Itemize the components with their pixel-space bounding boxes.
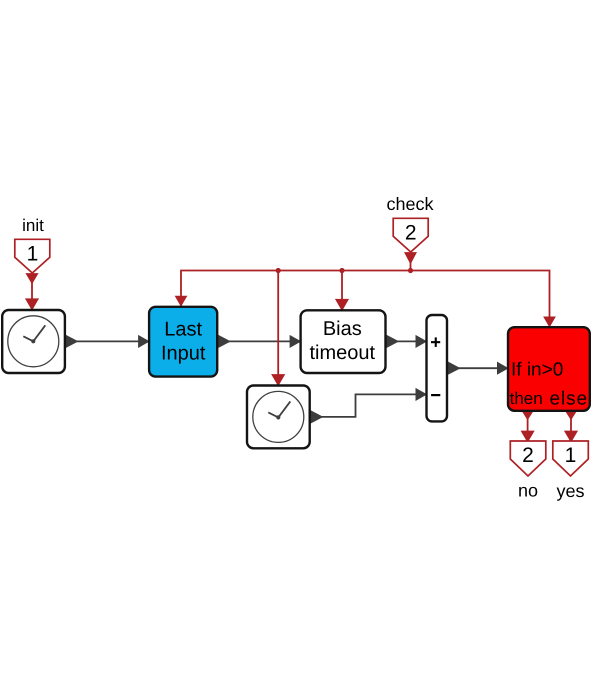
svg-text:2: 2 [522,444,534,467]
inport init [15,216,50,273]
wire red If out2 to port yes [566,411,577,441]
svg-text:yes: yes [556,481,584,501]
svg-text:else: else [550,388,588,409]
wire Bias timeout to sum plus input [387,336,426,347]
wire red If out1 to port no [522,411,533,441]
wire red arrowhead into If block [544,317,555,327]
wire Last Input to Bias timeout [218,336,299,347]
wire clock2 to sum minus input [311,389,425,422]
svg-text:no: no [518,481,538,501]
svg-text:1: 1 [565,444,577,467]
sum block [427,315,448,421]
outport no (2) [510,441,546,501]
wire red bus horizontal from check [181,271,550,327]
svg-text:1: 1 [27,243,39,266]
block If [508,327,590,411]
svg-text:timeout: timeout [310,342,376,364]
wire clock1 to Last Input [66,336,148,347]
clock block 1 [2,310,65,373]
svg-text:Input: Input [161,342,206,364]
svg-text:If in>0: If in>0 [511,359,563,380]
wire red arrowhead into Last Input [176,296,187,306]
svg-text:then: then [510,389,543,408]
svg-text:check: check [386,194,434,214]
wire sum to If block [448,363,507,374]
svg-text:init: init [22,216,44,235]
clock block 2 [247,386,310,449]
wire red check drop [406,252,416,273]
svg-text:2: 2 [405,222,417,245]
outport yes (1) [553,441,589,501]
svg-text:Bias: Bias [323,318,362,340]
inport check [386,194,434,252]
block Bias timeout [301,310,386,373]
wire red init to clock1 [27,273,38,309]
block Last Input [149,307,217,377]
wire red branch to Bias timeout [337,268,348,309]
wire red branch to clock2 [273,268,284,385]
svg-text:Last: Last [164,318,202,340]
